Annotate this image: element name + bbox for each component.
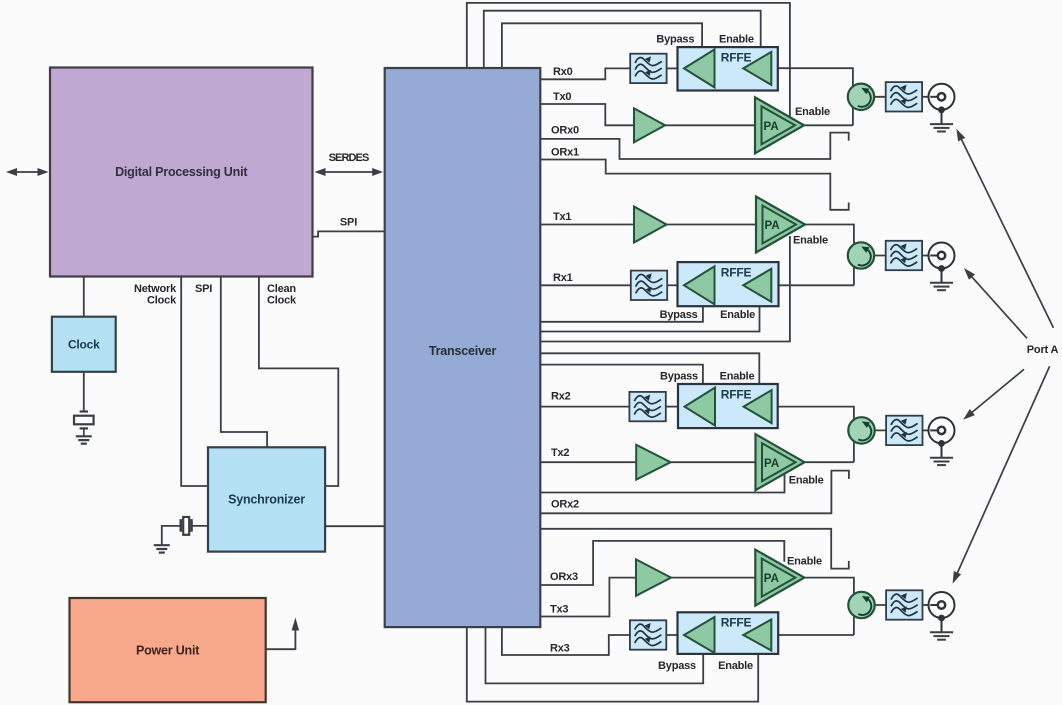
svg-text:RFFE: RFFE	[721, 388, 752, 402]
svg-text:RFFE: RFFE	[721, 51, 752, 65]
svg-text:Enable: Enable	[719, 34, 754, 46]
svg-text:Port A: Port A	[1027, 344, 1059, 356]
svg-text:Bypass: Bypass	[660, 309, 698, 321]
svg-text:RFFE: RFFE	[721, 266, 752, 280]
svg-text:Enable: Enable	[720, 371, 755, 383]
svg-text:Clean: Clean	[267, 283, 296, 295]
svg-text:Power Unit: Power Unit	[136, 644, 200, 658]
svg-text:Clock: Clock	[68, 338, 100, 352]
svg-text:PA: PA	[764, 458, 779, 470]
svg-text:Network: Network	[134, 283, 177, 295]
svg-text:Enable: Enable	[793, 235, 828, 247]
svg-text:Bypass: Bypass	[656, 34, 694, 46]
svg-text:Synchronizer: Synchronizer	[228, 493, 305, 507]
svg-text:Tx0: Tx0	[553, 91, 571, 103]
svg-text:Tx3: Tx3	[550, 604, 568, 616]
svg-text:PA: PA	[764, 121, 779, 133]
svg-text:Bypass: Bypass	[658, 660, 696, 672]
svg-text:Rx2: Rx2	[551, 391, 571, 403]
svg-text:ORx1: ORx1	[551, 147, 579, 159]
svg-text:Digital Processing Unit: Digital Processing Unit	[115, 165, 248, 179]
svg-text:Enable: Enable	[720, 309, 755, 321]
svg-text:Rx3: Rx3	[550, 643, 570, 655]
svg-text:ORx0: ORx0	[551, 125, 579, 137]
svg-text:Bypass: Bypass	[660, 371, 698, 383]
svg-text:Enable: Enable	[795, 106, 830, 118]
svg-text:ORx3: ORx3	[550, 571, 578, 583]
svg-text:Rx0: Rx0	[553, 66, 573, 78]
svg-text:SPI: SPI	[340, 217, 357, 229]
svg-text:ORx2: ORx2	[551, 499, 579, 511]
svg-text:Enable: Enable	[789, 474, 824, 486]
svg-text:SERDES: SERDES	[329, 152, 369, 164]
svg-text:Transceiver: Transceiver	[429, 344, 497, 358]
svg-text:Enable: Enable	[718, 660, 753, 672]
svg-text:Enable: Enable	[787, 556, 822, 568]
svg-text:Clock: Clock	[147, 295, 177, 307]
svg-text:SPI: SPI	[195, 283, 212, 295]
svg-text:Rx1: Rx1	[553, 272, 573, 284]
svg-text:Tx1: Tx1	[553, 211, 571, 223]
svg-text:Tx2: Tx2	[551, 447, 569, 459]
svg-text:PA: PA	[764, 573, 779, 585]
svg-text:PA: PA	[765, 220, 780, 232]
svg-text:Clock: Clock	[267, 295, 297, 307]
svg-text:RFFE: RFFE	[721, 616, 752, 630]
